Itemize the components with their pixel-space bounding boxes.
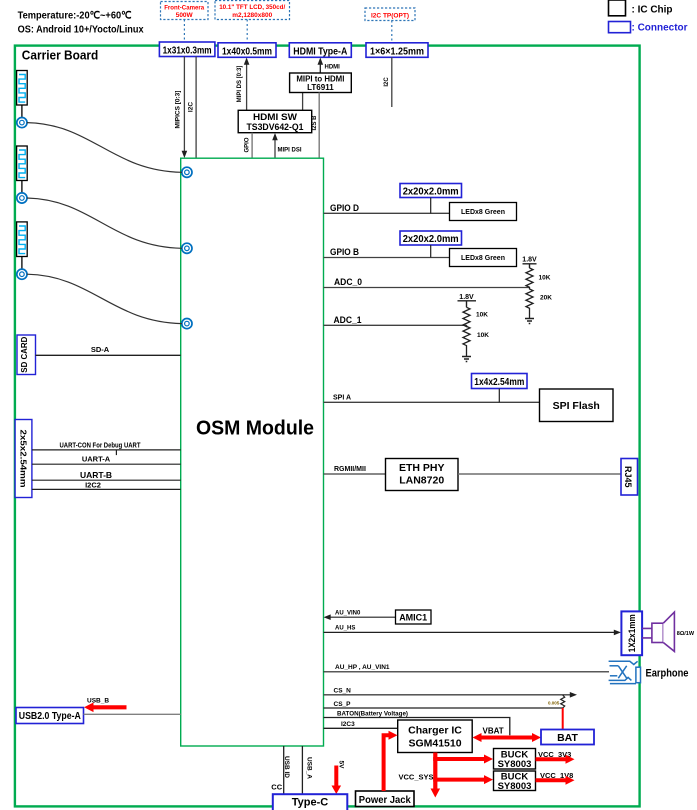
power net VCC_SYS trunk xyxy=(399,753,441,798)
svg-text:SGM41510: SGM41510 xyxy=(408,738,461,750)
wire AU_HP AU_VIN1 xyxy=(324,664,610,672)
rail 1.8V (ADC_0) xyxy=(522,257,537,269)
svg-text:LAN8720: LAN8720 xyxy=(399,475,444,487)
wire I2C camera xyxy=(188,57,196,159)
antenna 2 xyxy=(17,146,28,193)
svg-text:0.005: 0.005 xyxy=(548,701,560,706)
rail 1.8V (ADC_1) xyxy=(458,294,477,307)
chip ETH PHY LAN8720 xyxy=(386,459,459,491)
module RF connector 3 xyxy=(182,319,192,329)
antenna connector 3 xyxy=(17,269,27,279)
svg-text:Power Jack: Power Jack xyxy=(359,794,411,806)
resistor 10K (ADC_0 upper) xyxy=(526,268,551,288)
wire CS_N with arrow xyxy=(324,688,578,698)
svg-text:LEDx8 Green: LEDx8 Green xyxy=(461,209,505,216)
svg-text:5V: 5V xyxy=(337,761,344,770)
wire AU_HS with right arrow xyxy=(324,626,622,636)
svg-text:10K: 10K xyxy=(477,332,489,339)
resistor 10K (ADC_1 lower) xyxy=(463,325,489,356)
svg-text:1x40x0.5mm: 1x40x0.5mm xyxy=(222,46,272,57)
chip Charger IC SGM41510 xyxy=(398,720,473,753)
svg-text:1X2x1mm: 1X2x1mm xyxy=(627,614,637,652)
svg-text:Charger IC: Charger IC xyxy=(408,725,462,737)
svg-text:AU_HP , AU_VIN1: AU_HP , AU_VIN1 xyxy=(335,664,390,671)
svg-text:MIPICS [0:3]: MIPICS [0:3] xyxy=(175,91,182,129)
connector USB2.0 Type-A xyxy=(16,708,84,724)
power arrow USB_B 5V xyxy=(84,703,127,713)
svg-text:MIPI DSI: MIPI DSI xyxy=(278,148,302,154)
wire I2S B xyxy=(312,93,319,159)
wire 2x20 to GPIO D xyxy=(430,198,432,214)
svg-text:ETH PHY: ETH PHY xyxy=(399,462,445,474)
legend IC chip box xyxy=(609,0,673,16)
svg-text:1.8V: 1.8V xyxy=(459,294,474,301)
antenna 3 xyxy=(17,222,28,269)
wire ADC_0 xyxy=(324,277,530,288)
svg-text:m2,1280x800: m2,1280x800 xyxy=(232,12,272,19)
wire HDMI SW to LT6911 xyxy=(302,93,304,111)
svg-text:VCC_SYS: VCC_SYS xyxy=(399,773,434,782)
coax wire 1 xyxy=(27,123,182,173)
wire CS_P xyxy=(324,701,563,708)
chip BUCK SY8003 (1V8) xyxy=(494,771,536,792)
svg-text:I2C: I2C xyxy=(384,77,390,87)
option box I2C TP xyxy=(365,8,415,21)
connector 2x20x2.0mm (GPIO B) xyxy=(400,231,462,245)
antenna connector 1 xyxy=(17,118,27,128)
svg-text:1x31x0.3mm: 1x31x0.3mm xyxy=(163,46,212,57)
svg-text:20K: 20K xyxy=(540,295,552,302)
connector 1x40x0.5mm xyxy=(218,43,276,58)
wire SPI A xyxy=(324,395,540,403)
OSM module xyxy=(181,158,324,746)
chip HDMI SW TS3DV642-Q1 xyxy=(238,110,312,133)
wire I2C TP dangling xyxy=(384,57,392,107)
wire SD-A xyxy=(36,345,181,355)
connector 2x20x2.0mm (GPIO D) xyxy=(400,184,462,198)
svg-text:: Connector: : Connector xyxy=(632,22,688,34)
svg-text:OSM Module: OSM Module xyxy=(196,417,314,440)
wire GPIO from HDMI SW to module xyxy=(244,133,252,158)
connector RJ45 xyxy=(621,459,638,496)
svg-text:500W: 500W xyxy=(176,12,194,19)
wire I2C3 xyxy=(324,721,398,728)
svg-text:GPIO B: GPIO B xyxy=(330,247,359,257)
wire UART-B xyxy=(32,470,181,480)
power wire jack to charger xyxy=(384,731,398,791)
svg-text:CS_N: CS_N xyxy=(334,688,352,695)
svg-text:SD CARD: SD CARD xyxy=(19,337,29,373)
svg-text:UART-CON For Debug UART: UART-CON For Debug UART xyxy=(60,442,142,449)
svg-text:SY8003: SY8003 xyxy=(498,759,532,770)
carrier board title xyxy=(22,48,99,63)
wire USB ID xyxy=(283,746,290,794)
power net VCC_1V8 xyxy=(536,771,575,785)
svg-text:HDMI: HDMI xyxy=(325,65,341,71)
svg-text:UART-A: UART-A xyxy=(82,455,111,464)
svg-text:BAT: BAT xyxy=(557,732,578,744)
svg-text:I2C2: I2C2 xyxy=(85,481,101,490)
svg-text:I2C3: I2C3 xyxy=(341,721,355,728)
chip BUCK SY8003 (3V3) xyxy=(494,749,536,771)
wire AU_VIN0 with left arrow xyxy=(324,611,396,620)
svg-text:10K: 10K xyxy=(476,312,488,319)
svg-text:USB_A: USB_A xyxy=(306,757,313,779)
power branch to BUCK1 xyxy=(433,755,493,764)
speaker xyxy=(642,612,695,651)
wire USB_A xyxy=(302,746,312,794)
svg-text:RGMII/MII: RGMII/MII xyxy=(334,466,366,473)
svg-text:ADC_0: ADC_0 xyxy=(334,277,362,287)
wire MIPICS with arrow to module xyxy=(175,57,188,159)
svg-text:USB_B: USB_B xyxy=(87,698,109,705)
connector HDMI Type-A xyxy=(289,43,351,58)
svg-text:VBAT: VBAT xyxy=(483,727,504,736)
SD CARD connector xyxy=(17,335,36,375)
svg-text:2x5x2.54mm: 2x5x2.54mm xyxy=(18,430,28,488)
svg-text:Type-C: Type-C xyxy=(292,797,329,809)
svg-text:TS3DV642-Q1: TS3DV642-Q1 xyxy=(247,122,305,133)
svg-text:MIPI DS [0:3]: MIPI DS [0:3] xyxy=(237,66,243,103)
wire ETH PHY to RJ45 xyxy=(458,473,621,475)
svg-text:GPIO D: GPIO D xyxy=(330,203,359,213)
connector 1x4x2.54mm xyxy=(472,374,528,389)
svg-text:USB ID: USB ID xyxy=(283,756,290,778)
chip SPI Flash xyxy=(540,389,614,422)
svg-text:Earphone: Earphone xyxy=(646,668,689,680)
power net VCC_3V3 xyxy=(536,750,575,764)
svg-text:AU_VIN0: AU_VIN0 xyxy=(335,611,361,617)
wire I2C2 xyxy=(32,481,181,490)
power branch to BUCK2 xyxy=(433,775,493,784)
ground (ADC_0) xyxy=(525,319,534,324)
svg-text:AMIC1: AMIC1 xyxy=(399,613,427,623)
antenna connector 2 xyxy=(17,193,27,203)
svg-text:1×6×1.25mm: 1×6×1.25mm xyxy=(370,46,424,57)
chip MIPI to HDMI LT6911 xyxy=(290,73,352,93)
connector 1X2x1mm xyxy=(621,611,642,655)
wire 1x4 to SPI A xyxy=(498,389,500,403)
wire GPIO D xyxy=(324,203,450,213)
connector Power Jack xyxy=(356,791,415,807)
option box TFT LCD xyxy=(215,1,290,20)
svg-text:I2C: I2C xyxy=(188,102,195,112)
header temperature text xyxy=(18,10,132,22)
module RF connector 2 xyxy=(182,243,192,253)
wire USB_B xyxy=(84,698,181,715)
svg-text:RJ45: RJ45 xyxy=(623,466,633,488)
module RF connector 1 xyxy=(182,167,192,177)
earphone jack xyxy=(609,661,689,683)
svg-text:AU_HS: AU_HS xyxy=(335,626,355,632)
wire UART-CON xyxy=(32,442,181,455)
svg-text:HDMI Type-A: HDMI Type-A xyxy=(293,46,347,57)
connector BAT xyxy=(541,730,594,745)
svg-text:10K: 10K xyxy=(539,275,551,282)
wire UART-A xyxy=(32,455,181,465)
svg-text:1x4x2.54mm: 1x4x2.54mm xyxy=(474,377,524,388)
svg-text:SY8003: SY8003 xyxy=(498,781,532,792)
connector 1x6x1.25mm xyxy=(366,43,428,58)
shunt resistor 0.005 xyxy=(548,695,565,708)
svg-text:UART-B: UART-B xyxy=(80,470,112,480)
svg-text:8Ω/1W: 8Ω/1W xyxy=(677,631,695,637)
connector 2x5x2.54mm xyxy=(15,420,32,498)
ground (ADC_1) xyxy=(462,357,471,362)
label CC xyxy=(271,783,282,792)
dotted link tp to connector xyxy=(391,21,393,44)
coax wire 3 xyxy=(27,274,182,323)
coax wire 2 xyxy=(27,198,182,248)
wire MIPI DS arrow up to LCD connector xyxy=(237,58,250,111)
power net VBAT double arrow xyxy=(473,727,542,743)
option box Front-Camera xyxy=(161,2,209,20)
header OS text xyxy=(18,24,144,36)
wire shunt to BAT (red) xyxy=(562,708,564,730)
power arrow 5V to Type-C xyxy=(332,761,345,794)
wire 2x20 to GPIO B xyxy=(430,245,432,258)
svg-text:LEDx8 Green: LEDx8 Green xyxy=(461,255,505,262)
wire HDMI arrow to HDMI Type-A xyxy=(318,58,341,74)
svg-text:BATON(Battery Voltage): BATON(Battery Voltage) xyxy=(337,711,408,718)
wire RGMII/MII xyxy=(324,466,386,474)
LEDx8 Green (GPIO D) xyxy=(450,203,517,221)
connector 1x31x0.3mm xyxy=(159,42,215,57)
chip AMIC1 xyxy=(396,610,432,624)
svg-text:2x20x2.0mm: 2x20x2.0mm xyxy=(403,187,459,198)
svg-text:I2C TP(OPT): I2C TP(OPT) xyxy=(371,13,409,20)
svg-text:Temperature:-20℃~+60℃: Temperature:-20℃~+60℃ xyxy=(18,10,132,22)
wire MIPI DSI arrow into HDMI SW xyxy=(272,133,302,158)
wire ADC_1 xyxy=(324,315,467,325)
connector Type-C xyxy=(273,794,348,810)
legend connector box xyxy=(609,22,688,34)
svg-text:GPIO: GPIO xyxy=(244,137,250,152)
svg-text:OS: Android 10+/Yocto/Linux: OS: Android 10+/Yocto/Linux xyxy=(18,24,144,36)
svg-text:SD-A: SD-A xyxy=(91,345,110,354)
svg-text:LT6911: LT6911 xyxy=(307,83,334,92)
svg-text:CS_P: CS_P xyxy=(334,701,352,708)
dotted link camera to connector xyxy=(183,20,185,43)
svg-text:CC: CC xyxy=(271,783,282,792)
svg-text:1.8V: 1.8V xyxy=(522,257,537,264)
svg-text:ADC_1: ADC_1 xyxy=(334,315,362,325)
svg-text:2x20x2.0mm: 2x20x2.0mm xyxy=(403,234,459,245)
svg-text:Front-Camera: Front-Camera xyxy=(164,5,204,12)
svg-text:Carrier Board: Carrier Board xyxy=(22,48,99,63)
svg-text:USB2.0 Type-A: USB2.0 Type-A xyxy=(19,711,81,722)
resistor 20K (ADC_0 lower) xyxy=(526,288,552,319)
svg-text:10.1" TFT LCD, 350cd/: 10.1" TFT LCD, 350cd/ xyxy=(219,4,285,11)
wire BATON xyxy=(324,711,510,736)
svg-text:SPI A: SPI A xyxy=(333,395,351,402)
svg-text:SPI Flash: SPI Flash xyxy=(553,400,600,412)
svg-text:: IC Chip: : IC Chip xyxy=(632,4,673,16)
LEDx8 Green (GPIO B) xyxy=(450,249,517,267)
dotted link lcd to connector xyxy=(246,20,248,44)
antenna 1 xyxy=(17,71,28,118)
resistor 10K (ADC_1 upper) xyxy=(463,307,488,326)
svg-text:I2S B: I2S B xyxy=(312,115,318,131)
wire GPIO B xyxy=(324,247,450,257)
